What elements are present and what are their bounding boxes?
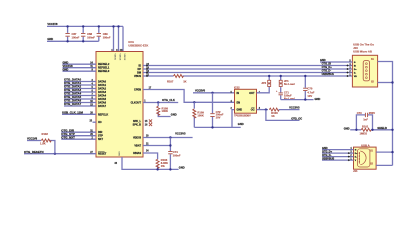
- net OTG_NXT: [61, 138, 96, 140]
- ground wire for bulk caps: [281, 99, 314, 101]
- svg-text:1nF: 1nF: [363, 117, 368, 121]
- net GND to REFSEL2: [63, 63, 97, 65]
- net OTG_D+ long wire: [143, 68, 352, 70]
- svg-text:USB Micro AB: USB Micro AB: [353, 49, 372, 53]
- wire VCC1V8 to IC11 VDD pins: [113, 26, 115, 51]
- ground wire under IC12: [194, 126, 240, 128]
- svg-text:RBIAS: RBIAS: [133, 152, 141, 155]
- wire J10 shield S2: [378, 82, 393, 84]
- svg-text:SHIELD: SHIELD: [377, 126, 387, 130]
- net OTG_OC: [266, 110, 300, 121]
- svg-text:10V: 10V: [216, 115, 221, 119]
- svg-text:OTG_RESETN: OTG_RESETN: [24, 150, 44, 154]
- svg-text:100K: 100K: [197, 113, 203, 117]
- pin stub XO pin 25: [93, 121, 97, 123]
- svg-text:C67: C67: [72, 32, 77, 36]
- capacitor C74 100nF on VBAT: [169, 146, 171, 152]
- svg-text:VCC5V0: VCC5V0: [195, 89, 206, 93]
- svg-text:1K: 1K: [271, 114, 274, 118]
- svg-text:100nF: 100nF: [72, 35, 80, 39]
- net GND stub to J11 pin 4: [322, 149, 354, 151]
- svg-text:4.7uF: 4.7uF: [307, 90, 314, 94]
- net OTG_DIR: [61, 131, 96, 133]
- svg-text:C73: C73: [357, 111, 362, 115]
- svg-text:IC11: IC11: [128, 40, 134, 44]
- wire J11 shield S2: [376, 164, 392, 166]
- svg-text:1K: 1K: [183, 79, 186, 83]
- svg-text:OTG_DATA7: OTG_DATA7: [64, 102, 81, 106]
- net OTG_DATA3: [64, 91, 96, 93]
- svg-text:IC12: IC12: [234, 86, 240, 90]
- svg-text:100K: 100K: [162, 109, 168, 113]
- svg-text:REFCLK: REFCLK: [98, 113, 108, 116]
- net OTG_STP: [61, 135, 96, 137]
- svg-text:VDDIO: VDDIO: [114, 54, 116, 61]
- capacitor C73 1nF 250V: [356, 115, 365, 130]
- svg-text:JP2: JP2: [261, 81, 266, 85]
- net GND to REFSEL0: [63, 70, 97, 72]
- svg-text:DATA7: DATA7: [98, 105, 107, 108]
- power rail VCC1V8: [47, 25, 123, 27]
- svg-text:C70: C70: [307, 87, 312, 91]
- svg-text:VCC3V3: VCC3V3: [289, 106, 300, 110]
- net OTG_DATA5: [64, 98, 96, 100]
- svg-text:R102: R102: [42, 132, 49, 136]
- svg-text:VDD33: VDD33: [133, 137, 142, 140]
- svg-text:C68: C68: [87, 32, 92, 36]
- svg-text:VBUS: VBUS: [134, 75, 141, 78]
- svg-text:J11: J11: [353, 169, 358, 173]
- svg-text:TPS2051BDBV: TPS2051BDBV: [234, 114, 251, 117]
- svg-text:1MEG: 1MEG: [360, 132, 368, 136]
- svg-text:VCC3V3: VCC3V3: [175, 131, 186, 135]
- svg-text:GND: GND: [63, 67, 69, 71]
- net OTG_DATA6: [64, 102, 96, 104]
- svg-text:CLKOUT: CLKOUT: [131, 102, 142, 105]
- net OTG_DATA2: [64, 88, 96, 90]
- svg-text:250V: 250V: [369, 111, 375, 115]
- net OTG_DATA0: [64, 81, 96, 83]
- svg-text:IN: IN: [237, 92, 240, 95]
- resistor R100 1K pullup to VCC3V3 on OC: [257, 109, 268, 111]
- net VCC3V3 on VDD33: [143, 137, 193, 139]
- svg-text:R107: R107: [167, 79, 174, 83]
- svg-text:USB3320C-EZK: USB3320C-EZK: [128, 44, 148, 48]
- svg-text:VDD18: VDD18: [123, 54, 125, 62]
- capacitor C69 100nF: [98, 26, 100, 33]
- svg-text:D-: D-: [355, 157, 357, 159]
- no-connect SPK_L pin 15: [149, 119, 152, 122]
- svg-text:OTG_OC: OTG_OC: [291, 117, 302, 121]
- svg-text:NXT: NXT: [98, 138, 103, 141]
- net USBVBUS at J11: [322, 159, 354, 161]
- wire VBAT to VCC3V3: [143, 138, 170, 146]
- net OTG_DATA4: [64, 95, 96, 97]
- capacitor C68 100nF: [82, 26, 84, 33]
- svg-text:100nF: 100nF: [87, 35, 95, 39]
- svg-text:10V: 10V: [307, 94, 312, 98]
- svg-text:USB_CLK_12M: USB_CLK_12M: [62, 111, 83, 115]
- resistor R103 8.06K 1% on RBIAS: [143, 153, 158, 159]
- svg-text:No Load: No Load: [284, 82, 295, 86]
- svg-text:GND: GND: [238, 122, 244, 126]
- net VCC1V8 to REFSEL1: [63, 67, 97, 69]
- op IC12 TPS2051BDBV power switch: [235, 89, 257, 113]
- net VCC5V0 to IN of IC12: [193, 92, 235, 94]
- svg-text:GND: GND: [63, 60, 69, 64]
- svg-text:GND: GND: [119, 151, 121, 156]
- net OTG_ID long wire: [143, 65, 352, 67]
- J10 receptacle graphic: [363, 61, 369, 81]
- svg-text:XO: XO: [98, 121, 102, 124]
- ground rail GND: [47, 40, 99, 42]
- resistor R107 1K in VBUS line: [143, 75, 174, 77]
- svg-text:VBAT: VBAT: [134, 145, 141, 148]
- net OTG_D- long wire: [143, 72, 352, 74]
- svg-text:VCC1V8: VCC1V8: [63, 64, 74, 68]
- svg-text:D-: D-: [354, 73, 356, 75]
- svg-text:1%: 1%: [161, 164, 165, 168]
- svg-text:GND: GND: [171, 113, 177, 117]
- net OTG_RESETN to RESET pin 27: [24, 153, 96, 155]
- svg-text:RESET: RESET: [98, 153, 107, 156]
- svg-text:OUT: OUT: [249, 92, 255, 95]
- svg-text:GND: GND: [47, 37, 53, 41]
- capacitor C71 150uF No Load: [280, 88, 282, 93]
- svg-text:VCC1V8: VCC1V8: [47, 22, 58, 26]
- svg-text:GND: GND: [315, 97, 321, 101]
- jumper JP2 from OUT to VBUS: [257, 87, 270, 93]
- net OTG_DATA1: [64, 84, 96, 86]
- svg-text:VDD18: VDD18: [119, 54, 121, 62]
- svg-text:C69: C69: [103, 32, 108, 36]
- net GND to shield network: [350, 129, 356, 131]
- net OTG_DATA7: [64, 105, 96, 107]
- svg-text:CPEN: CPEN: [134, 89, 141, 92]
- net OTG_D- at J11: [322, 156, 354, 158]
- resistor R109 100K EN pulldown: [193, 101, 195, 103]
- jumper JP1 No Load: [280, 76, 282, 80]
- svg-text:100nF: 100nF: [173, 154, 181, 158]
- svg-text:USBVBUS: USBVBUS: [322, 73, 335, 76]
- svg-text:GND: GND: [179, 166, 185, 170]
- svg-text:SPK_R: SPK_R: [133, 124, 142, 127]
- no-connect SPK_R pin 16: [149, 123, 152, 126]
- svg-text:USBVBUS: USBVBUS: [322, 157, 335, 160]
- wire CPEN to EN of IC12: [143, 90, 235, 103]
- net USB_CLK_12M to REFCLK pin 26: [62, 113, 96, 115]
- wire J10 shield S1: [378, 62, 393, 166]
- capacitor C70 4.7uF 10V: [304, 76, 306, 88]
- J11 receptacle graphic: [358, 149, 370, 167]
- wire J11 shield S1: [376, 151, 392, 153]
- capacitor C67 100nF: [67, 26, 69, 33]
- net OTG_D+ at J11: [322, 152, 354, 154]
- svg-text:OTG_NXT: OTG_NXT: [61, 135, 75, 139]
- svg-text:VCC1V8: VCC1V8: [27, 137, 38, 141]
- svg-text:EN: EN: [237, 101, 241, 104]
- svg-text:1.5K: 1.5K: [40, 141, 46, 145]
- net GND stub to J10 pin 5: [320, 61, 352, 63]
- svg-text:OC: OC: [251, 109, 255, 112]
- svg-text:R101: R101: [362, 124, 369, 128]
- svg-text:OTG_CLK: OTG_CLK: [162, 98, 175, 102]
- wire IC11 GND pad to ground rail: [122, 157, 179, 169]
- svg-text:100nF: 100nF: [103, 35, 111, 39]
- svg-text:GND: GND: [344, 126, 350, 130]
- svg-text:REFSEL0: REFSEL0: [98, 70, 110, 73]
- net OTG_CLK with pulldown R108 100K: [143, 102, 178, 104]
- capacitor C72 100nF 10V: [211, 92, 213, 94]
- op IC11 USB3320C-EZK USB PHY: [96, 52, 143, 158]
- resistor R102 1.5K pullup from VCC1V8: [27, 140, 41, 142]
- resistor R101 1MEG: [356, 129, 361, 131]
- wire IC12 GND pin to ground: [232, 110, 235, 128]
- svg-text:GND: GND: [237, 109, 243, 112]
- svg-text:C74: C74: [173, 150, 178, 154]
